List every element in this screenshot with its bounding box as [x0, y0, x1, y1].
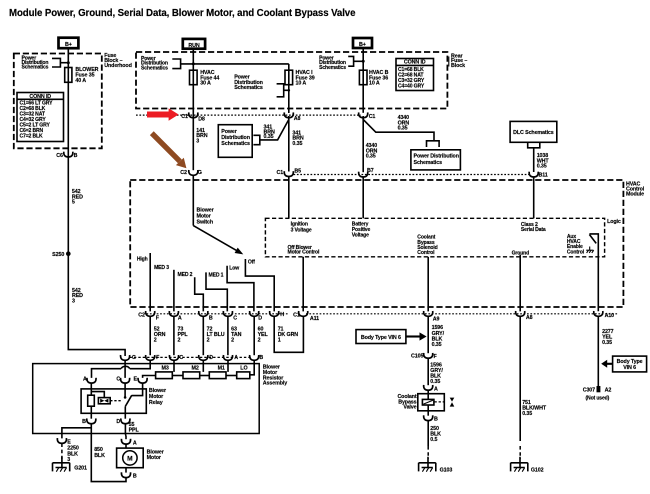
svg-text:M1: M1 — [218, 365, 225, 371]
svg-text:DLC Schematics: DLC Schematics — [513, 130, 554, 136]
svg-text:G: G — [198, 170, 202, 176]
svg-text:3: 3 — [196, 139, 199, 145]
svg-text:0.35: 0.35 — [398, 126, 408, 132]
svg-text:1: 1 — [278, 337, 281, 343]
svg-text:C6: C6 — [56, 153, 63, 159]
svg-text:B: B — [82, 419, 86, 425]
svg-text:Schematics: Schematics — [414, 160, 443, 166]
svg-text:B: B — [74, 153, 78, 159]
svg-text:Motor Control: Motor Control — [288, 250, 320, 256]
svg-text:A2: A2 — [605, 388, 612, 394]
svg-text:A: A — [83, 376, 87, 382]
svg-text:Relay: Relay — [149, 400, 163, 406]
svg-text:C: C — [116, 376, 120, 382]
svg-text:G: G — [132, 355, 136, 361]
svg-text:3: 3 — [67, 457, 70, 463]
svg-text:Schematics: Schematics — [234, 85, 263, 91]
svg-text:A: A — [178, 315, 182, 321]
svg-text:G201: G201 — [74, 466, 87, 472]
svg-text:A11: A11 — [310, 316, 319, 322]
svg-text:RUN: RUN — [188, 43, 199, 49]
svg-text:C: C — [233, 315, 237, 321]
svg-text:Low: Low — [229, 266, 239, 272]
svg-text:Module Power, Ground, Serial D: Module Power, Ground, Serial Data, Blowe… — [9, 8, 356, 19]
svg-text:B: B — [434, 416, 438, 422]
svg-text:2: 2 — [258, 337, 261, 343]
svg-text:C7=2 BLK: C7=2 BLK — [20, 133, 43, 139]
svg-text:A9: A9 — [433, 316, 440, 322]
svg-text:A8: A8 — [294, 116, 301, 122]
svg-text:Module: Module — [626, 192, 644, 198]
svg-text:C: C — [179, 355, 183, 361]
svg-text:Switch: Switch — [197, 220, 214, 226]
svg-text:Off: Off — [248, 259, 255, 265]
svg-text:A: A — [434, 386, 438, 392]
svg-text:Block: Block — [451, 63, 465, 69]
svg-text:A8: A8 — [526, 315, 533, 321]
svg-text:0.35: 0.35 — [366, 154, 376, 160]
svg-text:2: 2 — [154, 337, 157, 343]
svg-text:C307: C307 — [583, 388, 595, 394]
svg-text:A: A — [234, 355, 238, 361]
svg-text:C2: C2 — [180, 170, 187, 176]
svg-text:Control: Control — [417, 250, 435, 256]
svg-text:D: D — [116, 419, 120, 425]
svg-text:C105: C105 — [411, 354, 423, 360]
svg-text:Serial Data: Serial Data — [521, 227, 546, 233]
svg-text:VIN 6: VIN 6 — [623, 365, 636, 371]
svg-text:D8: D8 — [198, 117, 205, 123]
svg-text:C2: C2 — [138, 312, 145, 318]
svg-text:Assembly: Assembly — [263, 381, 287, 387]
svg-text:C1: C1 — [181, 114, 188, 120]
svg-text:Power Distribution: Power Distribution — [414, 154, 459, 160]
svg-text:MED 2: MED 2 — [178, 272, 193, 278]
svg-text:G103: G103 — [440, 467, 453, 473]
svg-text:Control: Control — [567, 249, 585, 255]
svg-text:A10: A10 — [605, 313, 615, 319]
svg-text:C1: C1 — [369, 114, 376, 120]
svg-text:(Not used): (Not used) — [586, 395, 610, 401]
svg-text:10 A: 10 A — [369, 80, 380, 86]
svg-text:E: E — [133, 376, 137, 382]
svg-text:S250: S250 — [52, 252, 64, 258]
svg-text:10 A: 10 A — [296, 80, 307, 86]
svg-text:M2: M2 — [192, 365, 199, 371]
svg-text:Logic: Logic — [607, 219, 621, 225]
svg-text:Schematics: Schematics — [22, 64, 49, 70]
svg-text:30 A: 30 A — [200, 80, 211, 86]
svg-text:5: 5 — [72, 200, 75, 206]
svg-text:Schematics: Schematics — [141, 65, 168, 71]
svg-text:LO: LO — [240, 365, 247, 371]
svg-text:Valve: Valve — [403, 405, 416, 411]
svg-text:0.35: 0.35 — [522, 411, 532, 417]
svg-text:2: 2 — [207, 337, 210, 343]
svg-text:40 A: 40 A — [75, 78, 86, 84]
svg-text:G102: G102 — [531, 467, 544, 473]
svg-text:H: H — [280, 312, 284, 318]
svg-text:0.35: 0.35 — [602, 340, 612, 346]
svg-text:B7: B7 — [367, 168, 374, 174]
svg-text:D: D — [209, 355, 213, 361]
svg-text:Schematics: Schematics — [319, 65, 346, 71]
svg-text:C4=40 GRY: C4=40 GRY — [398, 83, 425, 89]
svg-text:A: A — [133, 441, 137, 447]
svg-text:M: M — [127, 455, 133, 462]
svg-text:Voltage: Voltage — [352, 232, 369, 238]
svg-text:Body Type VIN 6: Body Type VIN 6 — [361, 335, 401, 341]
svg-text:M3: M3 — [162, 365, 169, 371]
svg-text:C1: C1 — [277, 170, 284, 176]
svg-text:3 Voltage: 3 Voltage — [291, 227, 312, 233]
svg-text:0.5: 0.5 — [430, 437, 437, 443]
svg-text:Underhood: Underhood — [104, 63, 131, 69]
svg-text:BLK: BLK — [94, 453, 105, 459]
svg-text:PPL: PPL — [129, 427, 140, 433]
svg-text:E: E — [67, 440, 71, 446]
svg-text:0.35: 0.35 — [537, 164, 547, 170]
svg-text:B: B — [209, 315, 213, 321]
svg-text:0.35: 0.35 — [430, 379, 440, 385]
svg-text:3: 3 — [72, 298, 75, 304]
svg-text:B: B — [259, 355, 263, 361]
svg-text:B+: B+ — [359, 42, 366, 48]
svg-text:0.35: 0.35 — [432, 342, 442, 348]
svg-text:2: 2 — [178, 337, 181, 343]
svg-text:DK GRN: DK GRN — [278, 332, 299, 338]
svg-text:B5: B5 — [294, 168, 301, 174]
svg-text:B11: B11 — [539, 173, 548, 179]
svg-text:0.35: 0.35 — [292, 141, 302, 147]
svg-text:Schematics: Schematics — [221, 141, 250, 147]
svg-text:2: 2 — [231, 337, 234, 343]
svg-text:MED 3: MED 3 — [154, 265, 169, 271]
svg-text:B+: B+ — [65, 42, 72, 48]
svg-text:B: B — [133, 474, 137, 480]
svg-text:Motor: Motor — [147, 455, 161, 461]
svg-text:High: High — [137, 256, 148, 262]
svg-text:D: D — [258, 315, 262, 321]
svg-text:0.35: 0.35 — [264, 134, 274, 140]
svg-text:MED 1: MED 1 — [209, 273, 224, 279]
